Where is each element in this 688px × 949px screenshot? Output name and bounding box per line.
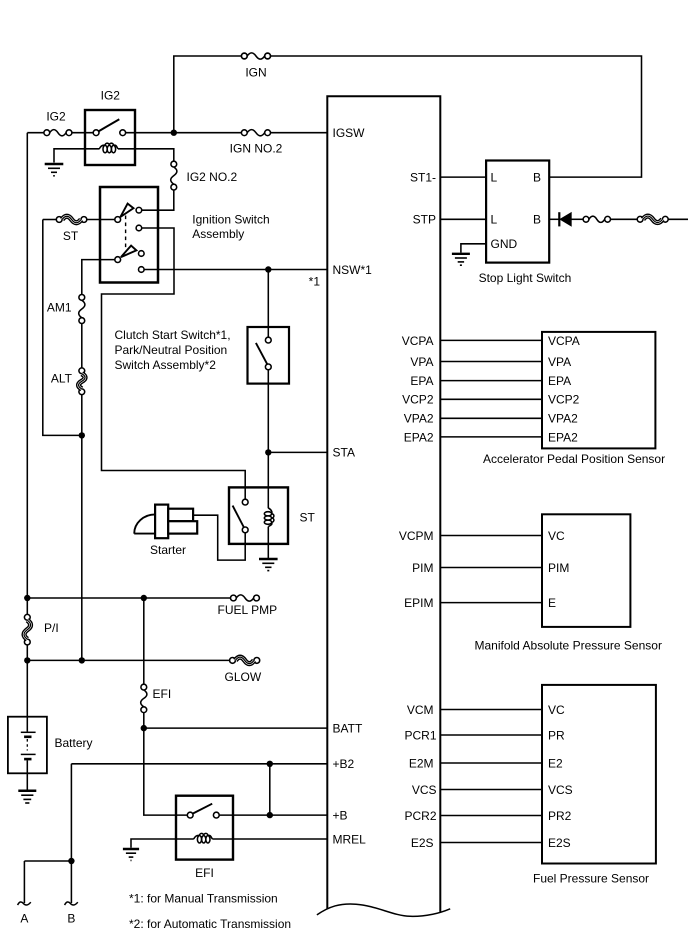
node A/B junction (68, 858, 74, 864)
svg-text:VCPA: VCPA (548, 334, 580, 348)
svg-text:L: L (491, 213, 498, 227)
fuse IGN (241, 53, 270, 59)
fuse AM1 (79, 295, 85, 324)
ground ST relay (259, 559, 278, 571)
wire stop light GND to ground (461, 244, 486, 253)
fusible link P/I (24, 614, 31, 645)
node FUEL PMP left junction (24, 595, 30, 601)
wire +B2 junction down to +B junction (269, 764, 271, 815)
svg-text:ST: ST (63, 229, 79, 243)
svg-text:*2: for Automatic Transmission: *2: for Automatic Transmission (129, 917, 291, 931)
wire NSW junction down to clutch switch (267, 270, 269, 338)
relay IG2 coil (103, 145, 107, 152)
wire IGN top branch (174, 56, 242, 133)
relay IG2 box (85, 110, 135, 165)
svg-text:VC: VC (548, 529, 565, 543)
svg-text:E2S: E2S (411, 836, 434, 850)
wire IGN NO.2 fuse to ECU IGSW (271, 132, 328, 134)
ground stop light switch (452, 254, 470, 265)
svg-text:E: E (548, 596, 556, 610)
fuse IG2 (44, 130, 93, 136)
svg-text:IGSW: IGSW (333, 126, 366, 140)
svg-text:B: B (67, 911, 75, 925)
svg-text:B: B (533, 171, 541, 185)
svg-text:Fuel Pressure Sensor: Fuel Pressure Sensor (533, 872, 649, 886)
wire VCPA row (440, 339, 542, 341)
svg-text:Battery: Battery (55, 736, 93, 750)
wire clutch switch to STA and ST relay coil (267, 370, 269, 488)
svg-text:PR2: PR2 (548, 809, 572, 823)
wire ignition switch pole 2 to AM1 (82, 260, 115, 295)
svg-text:IG2 NO.2: IG2 NO.2 (187, 170, 238, 184)
fuse EFI (141, 684, 188, 815)
fuse (stop light circuit) (583, 216, 610, 222)
svg-text:EPA: EPA (548, 374, 571, 388)
svg-text:ALT: ALT (51, 372, 73, 386)
fusible link GLOW (230, 657, 260, 664)
diode (559, 212, 571, 226)
wire EFI coil to ground (131, 839, 194, 848)
wire PIM row (440, 567, 542, 569)
ignition switch contact 4 (NSW) (139, 267, 145, 273)
svg-text:EPA2: EPA2 (404, 430, 434, 444)
connector B squiggle (65, 902, 78, 905)
wire ST1- row ECU to stop light switch (440, 176, 486, 178)
svg-text:PCR1: PCR1 (404, 728, 436, 742)
svg-text:B: B (533, 213, 541, 227)
wire VCP2 row (440, 398, 542, 400)
svg-text:EFI: EFI (153, 687, 172, 701)
battery cells (21, 717, 36, 790)
svg-text:VCP2: VCP2 (402, 393, 434, 407)
relay EFI contacts (187, 804, 219, 818)
wire VCPM row (440, 535, 542, 537)
svg-text:VPA: VPA (548, 355, 571, 369)
label Ignition Switch Assembly (192, 212, 269, 241)
node STA junction (265, 449, 271, 455)
wire +B2 down to A/B junction (70, 764, 72, 903)
fusible link ST (43, 216, 115, 223)
svg-text:GLOW: GLOW (225, 670, 262, 684)
fuel pressure sensor box (542, 685, 656, 864)
svg-text:FUEL PMP: FUEL PMP (218, 603, 278, 617)
wire diode to fuse (571, 218, 583, 220)
svg-text:ST1-: ST1- (410, 171, 436, 185)
wire AM1 to ALT (81, 324, 83, 368)
svg-text:EFI: EFI (195, 866, 214, 880)
wire PCR1 row (440, 734, 542, 736)
svg-text:P/I: P/I (44, 621, 59, 635)
wire VCS row (440, 789, 542, 791)
svg-text:Switch Assembly*2: Switch Assembly*2 (115, 358, 217, 372)
wire VPA row (440, 361, 542, 363)
ground EFI relay (123, 849, 139, 860)
wire MREL row: coil to ECU (212, 838, 327, 840)
svg-text:VPA: VPA (410, 355, 433, 369)
svg-text:E2S: E2S (548, 836, 571, 850)
wire E2S row (440, 842, 542, 844)
connector A squiggle (18, 902, 31, 905)
svg-text:Manifold Absolute Pressure Sen: Manifold Absolute Pressure Sensor (475, 639, 662, 653)
starter motor symbol (134, 505, 197, 539)
svg-text:VCPM: VCPM (399, 529, 434, 543)
wire IGSW row: relay to IGN NO.2 fuse (126, 132, 242, 134)
wire left rail upper (IGSW corner down to P/I) (26, 133, 28, 615)
relay IG2 contacts (93, 119, 125, 135)
svg-text:+B: +B (333, 809, 348, 823)
fuse IG2 NO.2 (171, 161, 177, 190)
ignition switch contact 2 (ST) (136, 225, 142, 231)
ignition switch pole 1 (115, 217, 121, 223)
fuse FUEL PMP (231, 595, 260, 601)
svg-text:MREL: MREL (333, 833, 367, 847)
node IGSW/IGN junction (171, 130, 177, 136)
node GLOW / ALT junction (79, 657, 85, 663)
svg-text:L: L (491, 171, 498, 185)
svg-text:PCR2: PCR2 (404, 809, 436, 823)
svg-text:PIM: PIM (548, 561, 569, 575)
relay ST coil (264, 487, 274, 558)
wire STP row ECU to stop light switch (440, 218, 486, 220)
wire FUEL PMP row (27, 597, 230, 599)
wire IG2 NO.2 fuse to ignition switch contact 1 (142, 190, 174, 210)
svg-text:+B2: +B2 (333, 757, 355, 771)
svg-text:ST: ST (300, 511, 316, 525)
wire BATT row (144, 727, 327, 729)
wire IGN fuse to stop light switch B (271, 56, 642, 177)
node +B junction (267, 812, 273, 818)
svg-text:VCP2: VCP2 (548, 393, 580, 407)
fusible link ALT (79, 368, 86, 395)
ignition switch assembly box (100, 187, 158, 283)
svg-text:STP: STP (413, 213, 436, 227)
ignition switch wedge 2 (121, 246, 136, 258)
clutch start switch contacts (256, 337, 271, 370)
wire EPIM row (440, 602, 542, 604)
relay EFI box (176, 796, 233, 860)
svg-text:VCM: VCM (407, 703, 434, 717)
svg-text:BATT: BATT (333, 722, 363, 736)
clutch start switch box (248, 327, 290, 384)
svg-text:VCS: VCS (548, 783, 573, 797)
node +B2 junction (267, 761, 273, 767)
node FUEL PMP / EFI junction (141, 595, 147, 601)
relay ST contacts (233, 499, 249, 533)
ignition switch gang dashed link (125, 216, 127, 250)
svg-text:GND: GND (491, 237, 518, 251)
wire PCR2 row (440, 815, 542, 817)
svg-text:Park/Neutral Position: Park/Neutral Position (115, 343, 228, 357)
svg-text:AM1: AM1 (47, 301, 72, 315)
node ST/ALT junction (79, 432, 85, 438)
wire STA row to ECU (268, 451, 327, 453)
svg-text:PIM: PIM (412, 561, 433, 575)
wire IGSW row: left rail to IG2 fuse (27, 132, 44, 134)
svg-text:E2M: E2M (409, 756, 434, 770)
ignition switch contact 3 (139, 251, 145, 257)
wire E2M row (440, 762, 542, 764)
svg-text:E2: E2 (548, 756, 563, 770)
wire GLOW row (27, 659, 229, 661)
fuse IGN NO.2 (241, 130, 270, 136)
ECU torn bottom edge (317, 904, 450, 916)
svg-text:A: A (20, 911, 28, 925)
svg-text:EPA2: EPA2 (548, 430, 578, 444)
wire IG2 coil to IG2 NO.2 fuse (118, 149, 174, 161)
svg-text:IG2: IG2 (46, 110, 66, 124)
svg-text:Stop Light Switch: Stop Light Switch (479, 271, 572, 285)
wire fuse to fusible link (611, 218, 638, 220)
svg-text:IGN: IGN (245, 66, 266, 80)
svg-text:VCPA: VCPA (402, 334, 434, 348)
wire +B2 row (71, 763, 327, 765)
ignition switch pole 2 (115, 257, 121, 263)
battery box (8, 717, 47, 774)
svg-text:VPA2: VPA2 (548, 412, 578, 426)
svg-text:Clutch Start Switch*1,: Clutch Start Switch*1, (115, 328, 231, 342)
wire ST feed rail (43, 220, 82, 436)
wire +B row: EFI relay to ECU (219, 814, 327, 816)
wire VCM row (440, 709, 542, 711)
node GLOW left junction (24, 657, 30, 663)
svg-text:EPA: EPA (410, 374, 433, 388)
svg-text:PR: PR (548, 728, 565, 742)
svg-text:STA: STA (333, 446, 355, 460)
label Clutch Start Switch (115, 328, 231, 372)
svg-text:EPIM: EPIM (404, 596, 433, 610)
wire EPA row (440, 380, 542, 382)
wire stop light B to diode (549, 218, 559, 220)
svg-text:Ignition Switch: Ignition Switch (192, 212, 269, 226)
wire EPA2 row (440, 436, 542, 438)
svg-text:Assembly: Assembly (192, 227, 244, 241)
wire ALT down to GLOW junction (81, 395, 83, 661)
wire left rail lower (P/I to battery) (26, 645, 28, 717)
relay EFI coil (197, 836, 201, 843)
ignition switch wedge 1 (120, 204, 133, 217)
fusible link (stop light circuit) (637, 216, 668, 223)
node NSW junction (265, 266, 271, 272)
wire IG2 coil to ground (54, 149, 100, 163)
svg-text:VC: VC (548, 703, 565, 717)
wire ST relay lower contact to starter (193, 515, 245, 560)
accelerator pedal position sensor box (542, 332, 655, 449)
svg-text:IG2: IG2 (101, 89, 121, 103)
node BATT junction (141, 725, 147, 731)
ground IG2 relay (45, 164, 64, 176)
stop light switch box (486, 161, 549, 263)
svg-text:NSW*1: NSW*1 (333, 263, 373, 277)
ECU box (engine control module) (327, 96, 440, 912)
svg-text:*1: for Manual Transmission: *1: for Manual Transmission (129, 892, 278, 906)
ground battery (18, 791, 36, 803)
svg-text:IGN NO.2: IGN NO.2 (230, 142, 283, 156)
relay ST box (229, 487, 288, 544)
wire VPA2 row (440, 417, 542, 419)
manifold absolute pressure sensor box (542, 514, 630, 627)
wire A branch (24, 860, 71, 862)
svg-text:VPA2: VPA2 (404, 412, 434, 426)
svg-text:VCS: VCS (412, 783, 437, 797)
wire contact 2 to ST relay (102, 228, 246, 499)
wire fusible link to edge (668, 218, 688, 220)
svg-text:Starter: Starter (150, 543, 186, 557)
ignition switch contact 1 (to IG2 NO.2) (136, 207, 142, 213)
wire NSW row to ECU (144, 269, 327, 271)
svg-text:Accelerator Pedal Position Sen: Accelerator Pedal Position Sensor (483, 452, 665, 466)
svg-text:*1: *1 (309, 275, 321, 289)
wire EFI fuse feed (143, 598, 145, 684)
